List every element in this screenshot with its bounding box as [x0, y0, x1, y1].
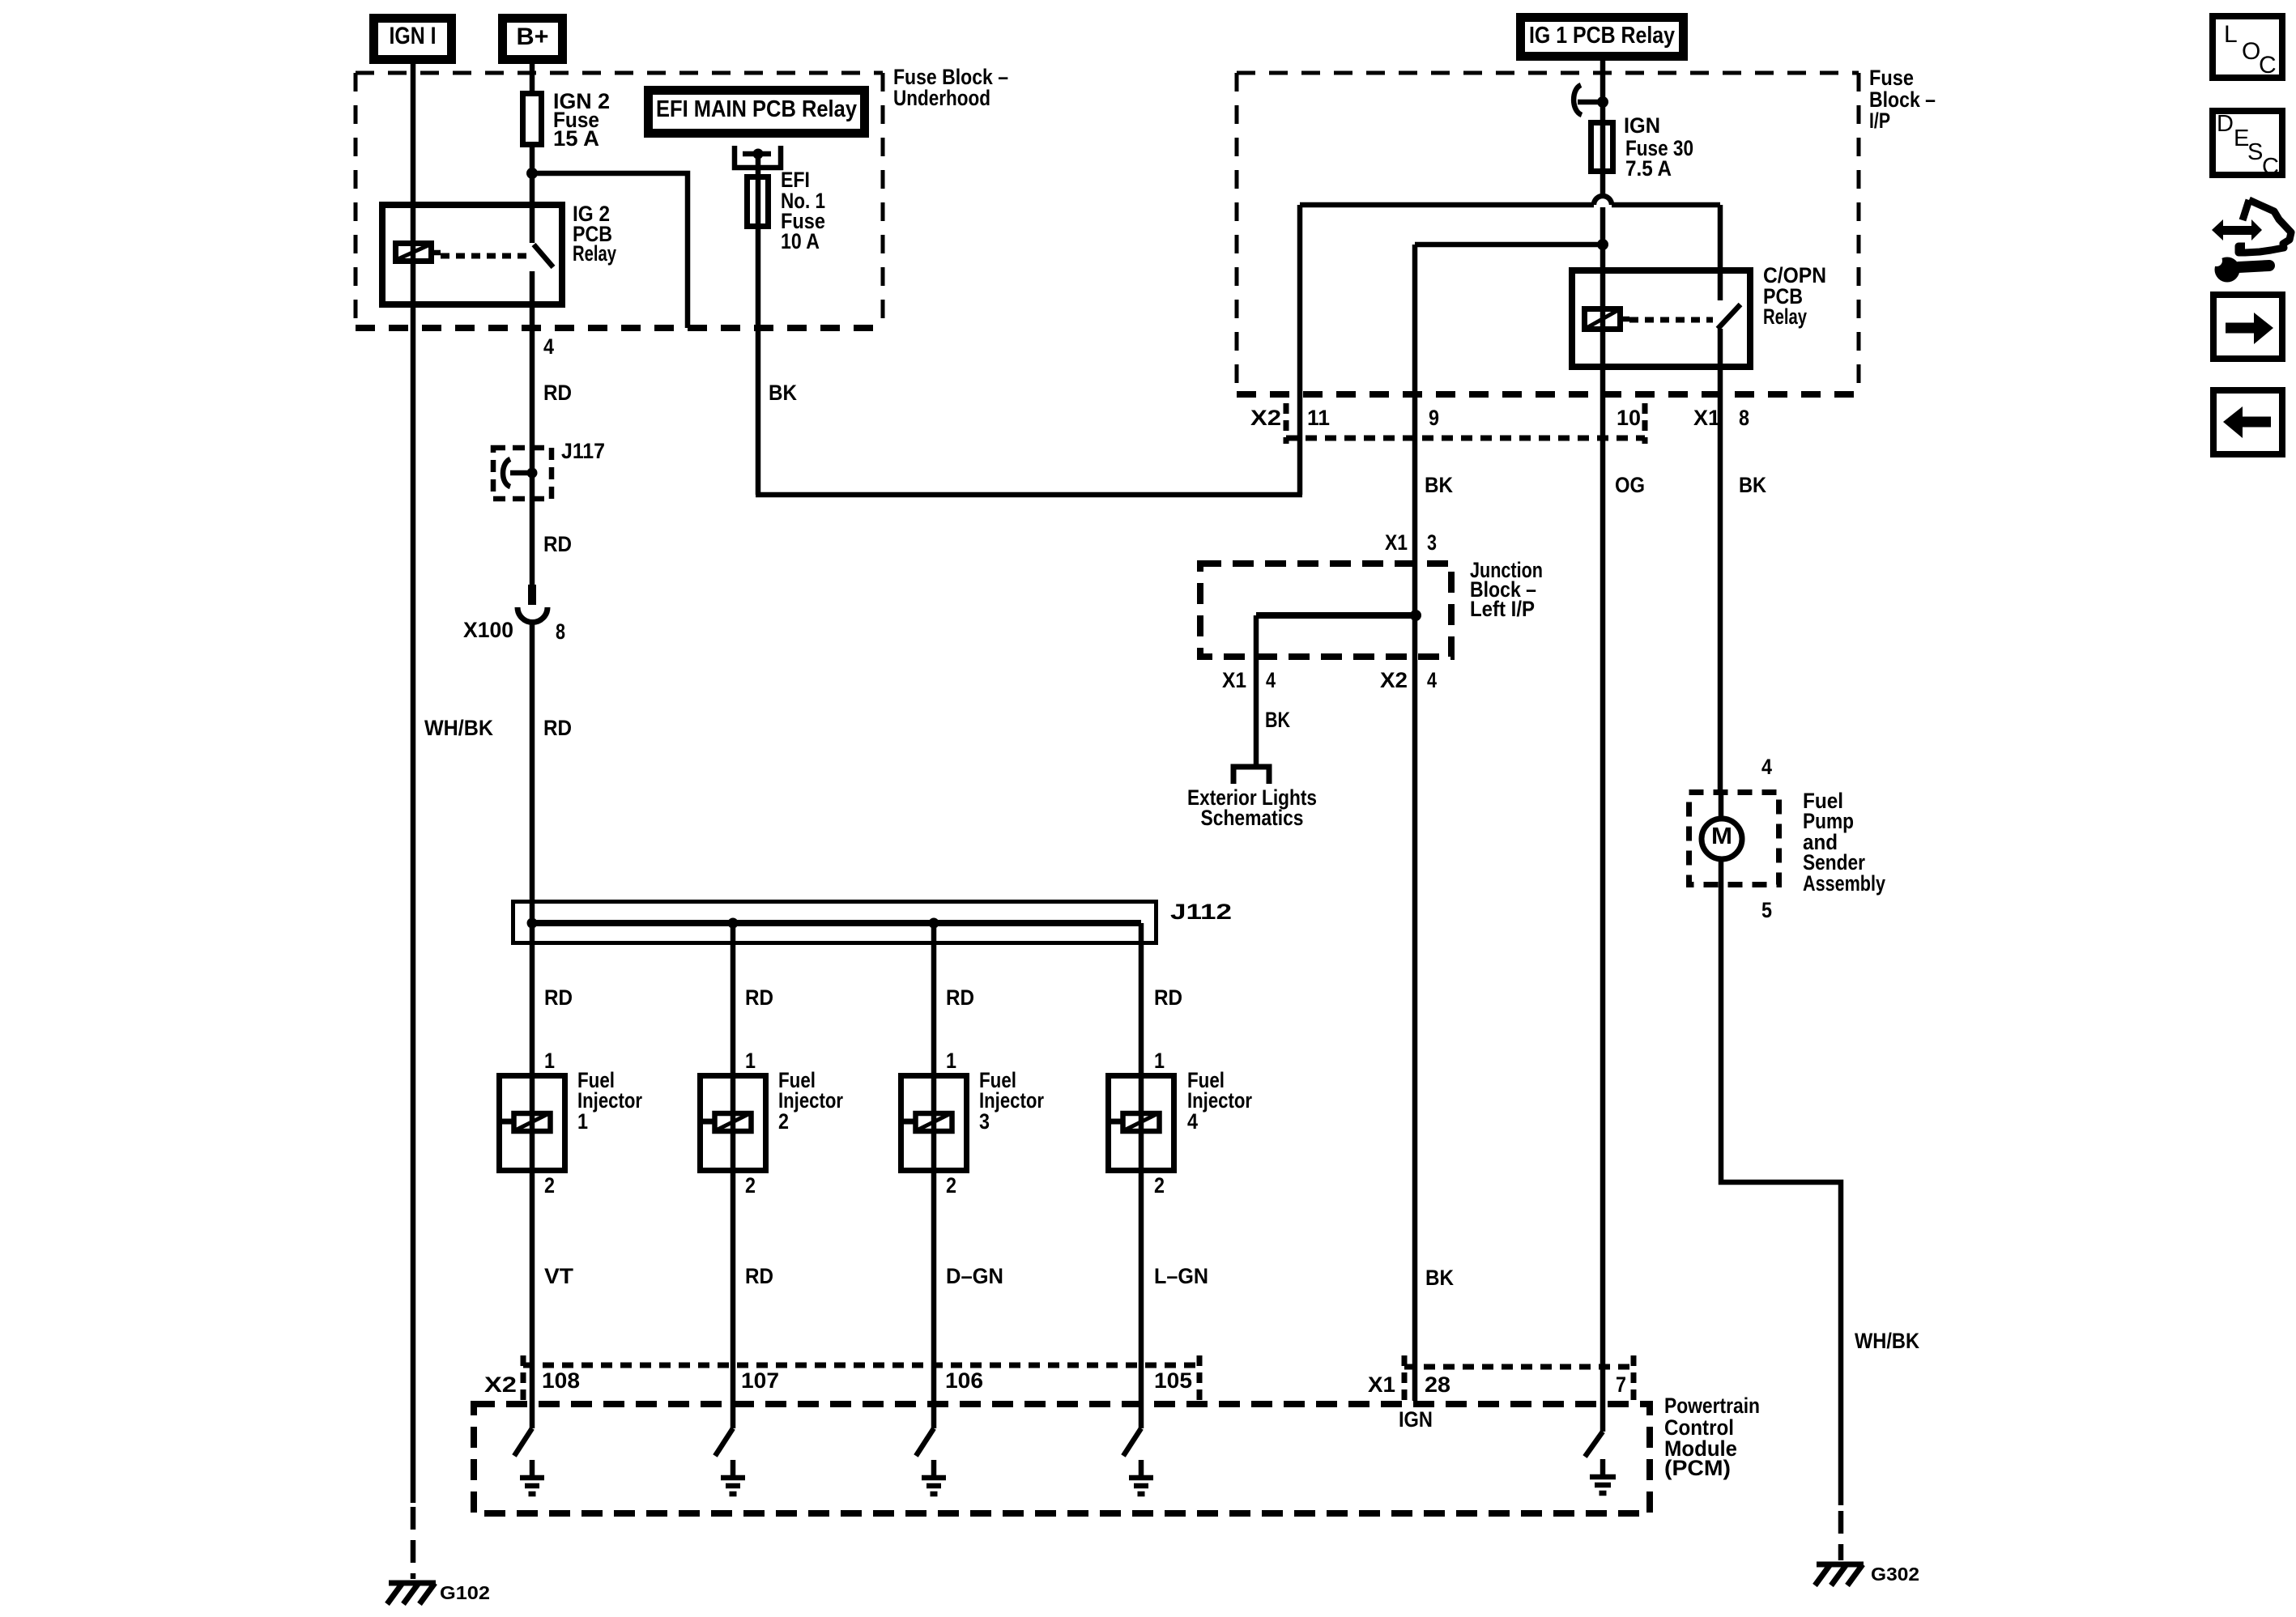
- svg-text:O: O: [2242, 38, 2260, 65]
- svg-text:28: 28: [1425, 1372, 1450, 1397]
- connector X100 pin 8 (inline): [518, 585, 547, 623]
- label IG 2 PCB Relay: [573, 202, 616, 266]
- wire hop (horizontal bus over vertical wire): [1300, 196, 1720, 205]
- motor M (fuel pump): [1702, 789, 1742, 887]
- wire IGN I feed (WH/BK) down page: [411, 64, 416, 1503]
- svg-text:5: 5: [1761, 898, 1772, 922]
- sidebar previous-page button (left arrow): [2213, 390, 2282, 454]
- splice rail J112 housing: [513, 902, 1157, 943]
- svg-text:15 A: 15 A: [553, 126, 599, 151]
- wire relay out to J117/X100: [530, 271, 535, 585]
- label J112: [1170, 900, 1232, 924]
- label pin 2 (injector 4): [1154, 1173, 1165, 1198]
- label Fuel Pump and Sender Assembly: [1803, 789, 1885, 896]
- relay IG 2 PCB box: [382, 205, 562, 304]
- label pin 8: [1739, 406, 1749, 430]
- label Fuel Injector 3: [979, 1068, 1044, 1134]
- label WH/BK (right wire): [1855, 1329, 1919, 1353]
- svg-text:RD: RD: [745, 1264, 773, 1288]
- svg-text:3: 3: [1427, 530, 1437, 555]
- svg-text:Fuse: Fuse: [1869, 66, 1914, 90]
- fuel injector 4 box: [1109, 1076, 1174, 1171]
- svg-text:BK: BK: [1425, 473, 1453, 497]
- fuse block - underhood enclosure (dashed): [356, 73, 883, 328]
- label Junction Block - Left I/P: [1470, 558, 1543, 621]
- svg-text:Powertrain: Powertrain: [1664, 1394, 1760, 1418]
- label pin 1 (injector 3): [946, 1049, 956, 1073]
- svg-text:2: 2: [778, 1109, 789, 1134]
- svg-text:1: 1: [1154, 1049, 1165, 1073]
- junction J112 tap 2: [728, 918, 739, 929]
- svg-text:106: 106: [945, 1368, 983, 1393]
- svg-text:(PCM): (PCM): [1664, 1456, 1731, 1480]
- label J117: [561, 439, 605, 463]
- wire fuel pump out (WH/BK): [1721, 887, 1841, 1505]
- label pin 8 (X100): [556, 619, 565, 644]
- label VT (injector 1 low side): [544, 1264, 574, 1288]
- svg-text:Assembly: Assembly: [1803, 871, 1885, 896]
- label Powertrain Control Module (PCM): [1664, 1394, 1760, 1480]
- label BK (EFI fuse wire): [769, 381, 797, 405]
- svg-text:C: C: [2259, 52, 2277, 79]
- wire dashed drop to G102: [411, 1507, 416, 1579]
- svg-text:I/P: I/P: [1869, 109, 1890, 133]
- label BK (pin 8 wire): [1739, 473, 1766, 497]
- PCM driver switch (injector 4): [1123, 1428, 1141, 1456]
- label pin 4 (fuel pump): [1761, 755, 1772, 779]
- fuel injector 3 coil: [899, 1113, 952, 1131]
- label Fuel Injector 2: [778, 1068, 843, 1134]
- svg-text:7.5 A: 7.5 A: [1625, 156, 1672, 181]
- label pin 1 (injector 2): [745, 1049, 756, 1073]
- svg-text:IGN: IGN: [1624, 113, 1660, 138]
- svg-text:WH/BK: WH/BK: [1855, 1329, 1919, 1353]
- svg-text:X1: X1: [1368, 1372, 1395, 1397]
- svg-text:X2: X2: [484, 1372, 517, 1397]
- label BK (pin 28 wire): [1425, 1266, 1454, 1290]
- wire EFI No.1 fuse vertical (BK): [756, 154, 761, 495]
- PCM driver switch (injector 1): [514, 1428, 532, 1456]
- label X1 pin 4: [1222, 668, 1276, 692]
- svg-text:BK: BK: [1265, 708, 1290, 732]
- relay IG 2 coil: [396, 244, 441, 262]
- svg-text:RD: RD: [946, 985, 974, 1010]
- wire branch to EFI MAIN relay (underhood): [532, 173, 688, 328]
- label C/OPN PCB Relay: [1763, 263, 1826, 329]
- PCM driver switch (injector 2): [715, 1428, 733, 1456]
- relay IG 2 switch blade: [534, 245, 553, 267]
- svg-text:X1: X1: [1385, 530, 1408, 555]
- svg-text:10 A: 10 A: [781, 229, 820, 253]
- label X2 pin 4: [1380, 668, 1437, 692]
- svg-text:C: C: [2262, 154, 2279, 180]
- connector X1 dotted line (PCM): [1404, 1355, 1634, 1404]
- svg-text:4: 4: [1266, 668, 1276, 692]
- junction at IGN 2 fuse output: [526, 168, 538, 179]
- label pin 1 (injector 4): [1154, 1049, 1165, 1073]
- wire dashed drop to G302: [1838, 1511, 1844, 1560]
- relay C/OPN switch blade: [1718, 304, 1740, 329]
- svg-text:RD: RD: [745, 985, 773, 1010]
- wire J112 to fuel injector 2: [731, 923, 736, 1428]
- wire J112 to fuel injector 4: [1139, 923, 1144, 1428]
- svg-text:2: 2: [946, 1173, 956, 1198]
- svg-text:4: 4: [543, 334, 554, 359]
- node IGN I (power terminal box): [374, 19, 452, 60]
- label pin 7: [1616, 1372, 1626, 1397]
- svg-text:7: 7: [1616, 1372, 1626, 1397]
- relay title box IG 1 PCB Relay: [1521, 18, 1684, 57]
- fuse IGN 2 15A: [523, 94, 542, 145]
- svg-text:4: 4: [1187, 1109, 1198, 1134]
- fuse block - I/P enclosure (dashed): [1237, 73, 1859, 394]
- wire junction block internal: [1256, 612, 1416, 619]
- sidebar DESC button: [2213, 111, 2282, 180]
- label G102: [440, 1582, 490, 1603]
- label pin 108: [542, 1368, 580, 1393]
- PCM driver switch (injector 3): [916, 1428, 934, 1456]
- svg-text:1: 1: [544, 1049, 555, 1073]
- connector X2 dotted line (PCM): [523, 1355, 1199, 1404]
- label pin 1 (injector 1): [544, 1049, 555, 1073]
- label pin 9: [1429, 406, 1439, 430]
- relay IG 2 actuator (dashed): [441, 253, 526, 259]
- svg-text:105: 105: [1154, 1368, 1192, 1393]
- svg-text:1: 1: [577, 1109, 588, 1134]
- svg-text:BK: BK: [1739, 473, 1766, 497]
- label Fuse Block - Underhood: [893, 65, 1008, 110]
- label X1 (PCM): [1368, 1372, 1395, 1397]
- svg-text:2: 2: [544, 1173, 555, 1198]
- svg-text:X1: X1: [1222, 668, 1246, 692]
- label Fuse Block - I/P: [1869, 66, 1936, 133]
- wire IG 1 relay feed down to PCM pin 7 (OG): [1600, 61, 1606, 1432]
- svg-text:Schematics: Schematics: [1201, 806, 1304, 830]
- label pin 28: [1425, 1372, 1450, 1397]
- wire B+ to IGN 2 fuse: [530, 64, 535, 91]
- fuel injector 3 box: [901, 1076, 967, 1171]
- label X2 (I/P): [1250, 406, 1281, 430]
- label RD (injector 1 feed): [544, 985, 573, 1010]
- PCM driver switch (fuel pump): [1585, 1432, 1603, 1457]
- svg-text:4: 4: [1427, 668, 1437, 692]
- junction block - left I/P enclosure (dashed): [1200, 564, 1451, 657]
- svg-text:L–GN: L–GN: [1154, 1264, 1208, 1288]
- fuel injector 4 coil: [1106, 1113, 1160, 1131]
- label pin 10: [1617, 406, 1641, 430]
- relay C/OPN PCB box: [1572, 270, 1750, 367]
- svg-text:X1: X1: [1693, 406, 1720, 430]
- wire to C/OPN switch: [1718, 205, 1723, 300]
- label D–GN (injector 3 low side): [946, 1264, 1003, 1288]
- wire X100 to J112/injector 1: [530, 622, 535, 1428]
- svg-text:RD: RD: [544, 985, 573, 1010]
- connector X2 dotted line (I/P bottom): [1286, 403, 1645, 444]
- svg-text:8: 8: [556, 619, 565, 644]
- svg-text:RD: RD: [543, 381, 572, 405]
- PCM ground (injector 3): [922, 1460, 946, 1494]
- PCM ground (injector 4): [1129, 1460, 1153, 1494]
- fuel pump enclosure (dashed): [1689, 793, 1779, 885]
- label pin 2 (injector 1): [544, 1173, 555, 1198]
- svg-text:RD: RD: [543, 716, 572, 740]
- svg-text:G102: G102: [440, 1582, 490, 1603]
- svg-text:X2: X2: [1250, 406, 1281, 430]
- label IGN 2 Fuse 15 A: [553, 89, 610, 151]
- label RD (injector 2 low side): [745, 1264, 773, 1288]
- svg-text:EFI MAIN PCB Relay: EFI MAIN PCB Relay: [656, 96, 857, 122]
- label pin 2 (injector 2): [745, 1173, 756, 1198]
- svg-text:1: 1: [745, 1049, 756, 1073]
- svg-text:2: 2: [745, 1173, 756, 1198]
- svg-text:11: 11: [1307, 406, 1330, 430]
- sidebar next-page button (right arrow): [2213, 295, 2282, 359]
- svg-text:OG: OG: [1615, 473, 1645, 497]
- wire J112 to fuel injector 3: [931, 923, 937, 1428]
- svg-text:RD: RD: [1154, 985, 1182, 1010]
- svg-text:8: 8: [1739, 406, 1749, 430]
- label Fuel Injector 4: [1187, 1068, 1252, 1134]
- svg-text:Relay: Relay: [573, 241, 616, 266]
- off-page bracket (exterior lights): [1233, 767, 1269, 784]
- svg-text:S: S: [2247, 139, 2263, 165]
- svg-text:108: 108: [542, 1368, 580, 1393]
- relay C/OPN coil: [1585, 309, 1630, 330]
- label BK (pin 9 wire): [1425, 473, 1453, 497]
- svg-text:L: L: [2224, 21, 2238, 48]
- junction dot (junction block): [1410, 610, 1421, 621]
- junction J112 tap 3: [929, 918, 939, 929]
- svg-text:RD: RD: [543, 532, 572, 556]
- label RD (below J117): [543, 532, 572, 556]
- label L–GN (injector 4 low side): [1154, 1264, 1208, 1288]
- splice J117 (dashed box + connector): [493, 448, 552, 499]
- sidebar LOC button: [2213, 16, 2282, 79]
- svg-text:BK: BK: [769, 381, 797, 405]
- label G302: [1871, 1564, 1919, 1585]
- wire fuse output to relay switch: [530, 147, 535, 243]
- label WH/BK (left wire): [424, 716, 493, 740]
- label X1 pin 3 (junction block top): [1385, 530, 1437, 555]
- svg-text:B+: B+: [517, 23, 549, 50]
- label X2 (PCM): [484, 1372, 517, 1397]
- svg-text:Left I/P: Left I/P: [1470, 597, 1535, 621]
- label Fuel Injector 1: [577, 1068, 642, 1134]
- svg-text:Underhood: Underhood: [893, 86, 990, 110]
- fuse IGN Fuse 30 7.5A: [1591, 123, 1613, 172]
- splice rail J112 bus: [532, 920, 1141, 926]
- junction C/OPN coil feed: [1597, 239, 1608, 250]
- powertrain control module enclosure (dashed): [474, 1404, 1650, 1513]
- wire branch to exterior lights (BK): [1254, 615, 1259, 764]
- label pin 11: [1307, 406, 1330, 430]
- label IGN Fuse 30 7.5 A: [1624, 113, 1693, 181]
- svg-text:X100: X100: [463, 618, 513, 642]
- label pin 107: [741, 1368, 779, 1393]
- label pin 2 (injector 3): [946, 1173, 956, 1198]
- svg-text:IG 1 PCB Relay: IG 1 PCB Relay: [1529, 23, 1675, 49]
- pin 4 (relay output): [543, 334, 554, 359]
- label RD (injector 2 feed): [745, 985, 773, 1010]
- label RD (to J112): [543, 716, 572, 740]
- label pin 106: [945, 1368, 983, 1393]
- svg-text:WH/BK: WH/BK: [424, 716, 493, 740]
- label pin 105: [1154, 1368, 1192, 1393]
- label IGN (PCM internal): [1399, 1407, 1433, 1432]
- svg-text:IGN: IGN: [1399, 1407, 1433, 1432]
- svg-text:107: 107: [741, 1368, 779, 1393]
- connector hook at IGN fuse 30: [1574, 85, 1608, 115]
- svg-text:4: 4: [1761, 755, 1772, 779]
- label OG (pin 10 wire): [1615, 473, 1645, 497]
- PCM ground (fuel pump): [1590, 1459, 1616, 1493]
- PCM ground (injector 2): [721, 1460, 745, 1494]
- svg-text:2: 2: [1154, 1173, 1165, 1198]
- svg-text:1: 1: [946, 1049, 956, 1073]
- svg-text:D–GN: D–GN: [946, 1264, 1003, 1288]
- fuel injector 1 coil: [497, 1113, 551, 1131]
- label Exterior Lights Schematics: [1187, 785, 1317, 830]
- svg-text:D: D: [2217, 111, 2234, 137]
- junction J112 tap 1: [527, 918, 538, 929]
- fuel injector 1 box: [500, 1076, 565, 1171]
- ground G102 (chassis): [387, 1583, 436, 1604]
- relay title box EFI MAIN PCB Relay: [649, 91, 865, 134]
- svg-text:9: 9: [1429, 406, 1439, 430]
- svg-text:M: M: [1711, 823, 1732, 849]
- relay C/OPN actuator (dashed): [1629, 317, 1713, 323]
- PCM ground (injector 1): [520, 1460, 544, 1494]
- fuel injector 2 coil: [698, 1113, 752, 1131]
- svg-text:3: 3: [979, 1109, 990, 1134]
- svg-text:VT: VT: [544, 1264, 574, 1288]
- svg-text:J117: J117: [561, 439, 605, 463]
- label RD (injector 4 feed): [1154, 985, 1182, 1010]
- wire C/OPN switch out to fuel pump (BK): [1718, 329, 1723, 789]
- label EFI No. 1 Fuse 10 A: [781, 168, 825, 253]
- fuse EFI No.1 10A: [748, 177, 769, 227]
- wire branch to pin 9: [1415, 245, 1603, 1401]
- fuel injector 2 box: [701, 1076, 766, 1171]
- svg-text:IGN I: IGN I: [390, 23, 437, 49]
- svg-text:J112: J112: [1170, 900, 1232, 924]
- label X1 (I/P): [1693, 406, 1720, 430]
- label RD (relay out wire): [543, 381, 572, 405]
- svg-text:10: 10: [1617, 406, 1641, 430]
- connector socket above EFI No.1 fuse: [735, 146, 781, 168]
- label pin 5 (fuel pump): [1761, 898, 1772, 922]
- svg-text:Relay: Relay: [1763, 304, 1807, 329]
- sidebar vehicle navigation icon: [2211, 200, 2291, 283]
- wire BK to fuse block I/P pin 11: [756, 492, 1302, 498]
- ground G302 (chassis): [1815, 1564, 1864, 1585]
- svg-text:G302: G302: [1871, 1564, 1919, 1585]
- node B+ (power terminal box): [503, 19, 563, 60]
- wire pin 11 riser: [1297, 205, 1303, 495]
- svg-text:X2: X2: [1380, 668, 1408, 692]
- svg-text:BK: BK: [1425, 1266, 1454, 1290]
- label BK (exterior lights wire): [1265, 708, 1290, 732]
- label X100: [463, 618, 513, 642]
- label RD (injector 3 feed): [946, 985, 974, 1010]
